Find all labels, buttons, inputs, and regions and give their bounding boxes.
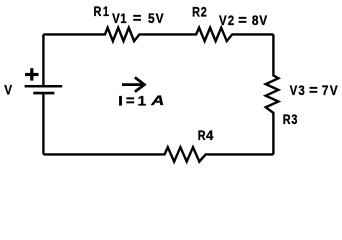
svg-text:I: I bbox=[118, 94, 123, 109]
svg-text:=: = bbox=[309, 82, 318, 99]
svg-text:=: = bbox=[126, 92, 135, 109]
svg-text:V1: V1 bbox=[112, 10, 127, 26]
svg-text:V: V bbox=[4, 81, 12, 97]
svg-text:=: = bbox=[133, 10, 142, 27]
svg-text:R: R bbox=[198, 128, 206, 144]
svg-text:R3: R3 bbox=[283, 112, 298, 128]
svg-text:7V: 7V bbox=[322, 82, 339, 98]
svg-text:V2: V2 bbox=[219, 12, 235, 28]
svg-text:8V: 8V bbox=[252, 12, 268, 28]
svg-text:5V: 5V bbox=[148, 10, 165, 26]
svg-text:V3: V3 bbox=[290, 82, 306, 98]
svg-text:4: 4 bbox=[206, 128, 214, 143]
svg-text:R1: R1 bbox=[94, 4, 111, 20]
svg-text:A: A bbox=[150, 93, 164, 109]
svg-text:=: = bbox=[238, 12, 247, 29]
svg-text:R2: R2 bbox=[192, 4, 208, 20]
svg-text:1: 1 bbox=[138, 94, 147, 109]
